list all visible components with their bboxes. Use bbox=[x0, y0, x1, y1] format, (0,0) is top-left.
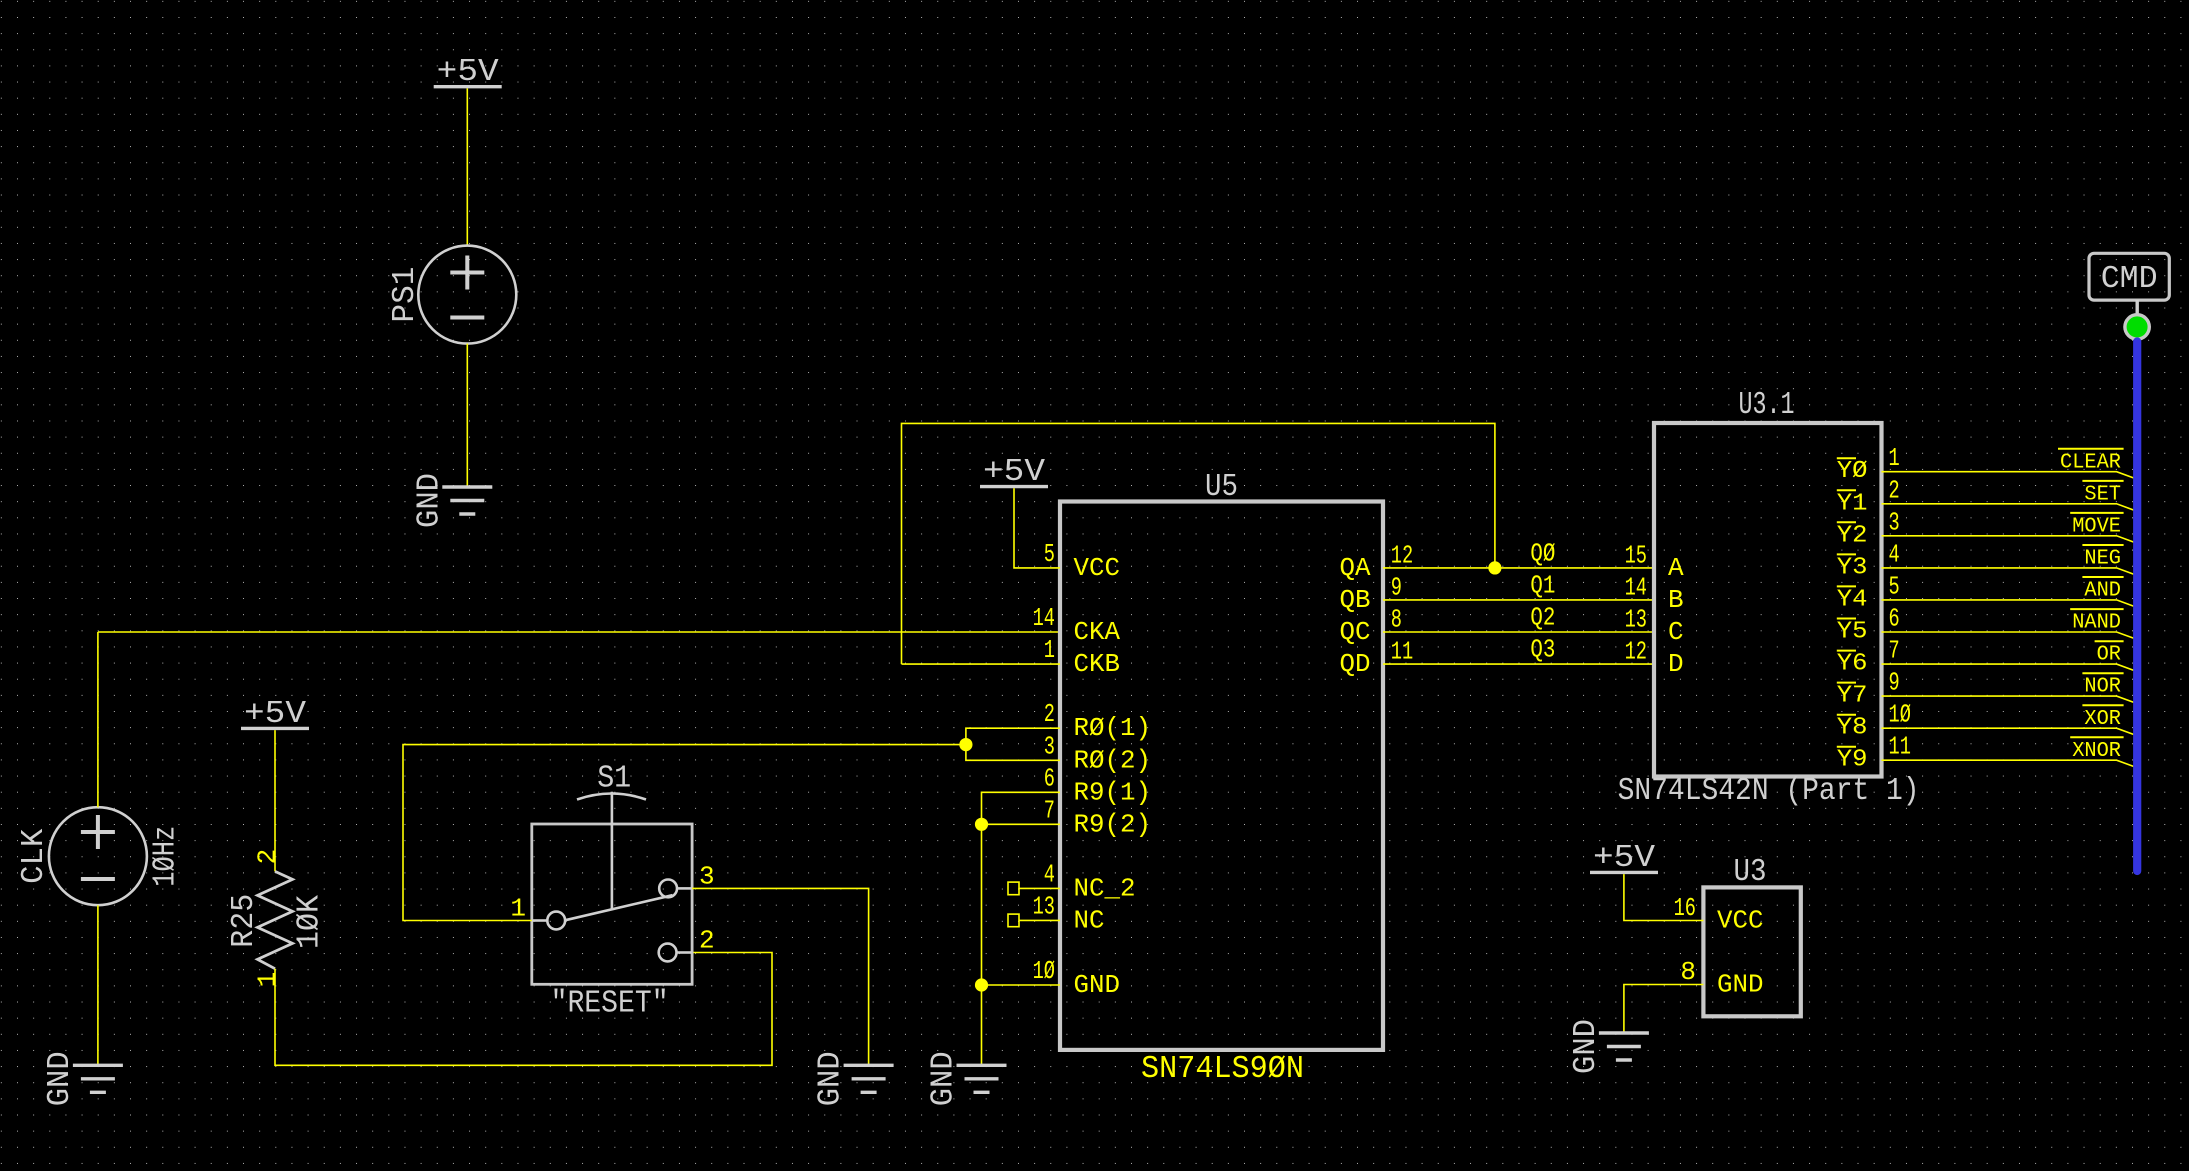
svg-text:CKB: CKB bbox=[1074, 649, 1121, 679]
svg-text:CLEAR: CLEAR bbox=[2060, 450, 2121, 474]
net label NEG bbox=[2082, 545, 2123, 571]
svg-text:GND: GND bbox=[814, 1051, 849, 1106]
bus CMD (blue) bbox=[2133, 342, 2141, 872]
svg-text:9: 9 bbox=[1889, 668, 1900, 698]
svg-text:QC: QC bbox=[1340, 617, 1371, 647]
no-connect pin 4 bbox=[1008, 882, 1060, 895]
resistor R25 10K bbox=[258, 871, 293, 968]
pin name Y0 (U3.1) bbox=[1837, 458, 1868, 485]
svg-text:NAND: NAND bbox=[2072, 611, 2121, 635]
svg-text:NEG: NEG bbox=[2084, 547, 2121, 571]
net label XNOR bbox=[2070, 737, 2123, 763]
svg-text:6: 6 bbox=[1889, 604, 1900, 634]
svg-text:3: 3 bbox=[1044, 731, 1055, 761]
svg-text:+5V: +5V bbox=[437, 55, 499, 90]
svg-text:+5V: +5V bbox=[1593, 841, 1655, 876]
wire Y0 to bus (net CLEAR) bbox=[1882, 472, 2134, 478]
wire R9(2) stub bbox=[982, 823, 1061, 825]
svg-text:VCC: VCC bbox=[1074, 553, 1121, 583]
power symbol +5V (R25 top) bbox=[241, 697, 309, 732]
svg-text:CKA: CKA bbox=[1074, 617, 1121, 647]
svg-text:8: 8 bbox=[1680, 957, 1696, 987]
svg-text:SN74LS42N (Part 1): SN74LS42N (Part 1) bbox=[1618, 774, 1920, 809]
svg-text:QB: QB bbox=[1340, 585, 1371, 615]
svg-text:16: 16 bbox=[1674, 893, 1696, 923]
wire Y8 to bus (net XOR) bbox=[1882, 728, 2134, 734]
wire +5V to U5 pin5 VCC bbox=[1014, 488, 1060, 568]
pin name Y4 (U3.1) bbox=[1837, 586, 1868, 613]
junction R9(2) bbox=[975, 818, 988, 831]
pin name Y5 (U3.1) bbox=[1837, 619, 1868, 646]
svg-text:AND: AND bbox=[2084, 579, 2121, 603]
wire Y6 to bus (net OR) bbox=[1882, 664, 2134, 670]
ground (U5) bbox=[927, 1051, 1007, 1106]
svg-text:3: 3 bbox=[699, 861, 715, 891]
svg-text:1: 1 bbox=[252, 972, 282, 988]
svg-text:1ØK: 1ØK bbox=[292, 895, 327, 949]
ground (CLK) bbox=[43, 1051, 123, 1106]
svg-text:R9(1): R9(1) bbox=[1074, 777, 1152, 807]
svg-text:12: 12 bbox=[1625, 637, 1647, 667]
svg-text:NOR: NOR bbox=[2084, 675, 2121, 699]
svg-text:7: 7 bbox=[1044, 795, 1055, 825]
wire QD to U3.1 D (net Q3) bbox=[1383, 663, 1654, 665]
IC U3.1 SN74LS42N body bbox=[1654, 423, 1882, 777]
svg-text:XNOR: XNOR bbox=[2072, 739, 2121, 763]
svg-text:13: 13 bbox=[1033, 891, 1055, 921]
svg-text:Y7: Y7 bbox=[1837, 683, 1868, 710]
wire Y7 to bus (net NOR) bbox=[1882, 696, 2134, 702]
svg-text:1ØHz: 1ØHz bbox=[149, 826, 184, 887]
svg-text:Y5: Y5 bbox=[1837, 619, 1868, 646]
svg-text:2: 2 bbox=[699, 926, 715, 956]
wire +5V to U3 pin16 VCC bbox=[1624, 874, 1704, 920]
svg-text:CMD: CMD bbox=[2101, 262, 2158, 297]
pin name Y7 (U3.1) bbox=[1837, 683, 1868, 710]
IC U3 body bbox=[1703, 887, 1800, 1016]
net label NAND bbox=[2070, 609, 2123, 635]
svg-text:QD: QD bbox=[1340, 649, 1371, 679]
svg-text:4: 4 bbox=[1889, 539, 1900, 569]
pin name Y6 (U3.1) bbox=[1837, 651, 1868, 678]
wire +5V to PS1 plus terminal bbox=[466, 88, 468, 246]
svg-text:Y2: Y2 bbox=[1837, 522, 1868, 549]
junction QA-feedback bbox=[1488, 561, 1501, 574]
pin name Y1 (U3.1) bbox=[1837, 490, 1868, 517]
net label SET bbox=[2082, 481, 2123, 507]
svg-text:GND: GND bbox=[927, 1051, 962, 1106]
svg-text:U3: U3 bbox=[1734, 855, 1767, 890]
svg-text:11: 11 bbox=[1391, 637, 1413, 667]
power symbol +5V (PS1 top) bbox=[434, 55, 502, 90]
svg-text:3: 3 bbox=[1889, 507, 1900, 537]
svg-text:NC: NC bbox=[1074, 905, 1105, 935]
svg-text:2: 2 bbox=[1889, 475, 1900, 505]
junction R0 net bbox=[959, 738, 972, 751]
svg-text:S1: S1 bbox=[597, 761, 631, 796]
svg-text:QØ: QØ bbox=[1530, 538, 1555, 568]
svg-text:6: 6 bbox=[1044, 763, 1055, 793]
svg-text:1Ø: 1Ø bbox=[1889, 700, 1911, 730]
svg-text:QA: QA bbox=[1340, 553, 1371, 583]
svg-text:PS1: PS1 bbox=[388, 267, 423, 323]
wire feedback QA to CKB bbox=[902, 423, 1495, 664]
svg-text:14: 14 bbox=[1625, 572, 1647, 602]
svg-text:+5V: +5V bbox=[983, 455, 1045, 490]
switch S1 body bbox=[532, 792, 692, 985]
wire Y2 to bus (net MOVE) bbox=[1882, 536, 2134, 542]
net label CLEAR bbox=[2058, 449, 2124, 475]
power symbol +5V (U3) bbox=[1590, 841, 1658, 876]
wire U5 GND stub bbox=[982, 984, 1061, 986]
wire U5 CKB stub bbox=[902, 663, 1061, 665]
svg-text:Y6: Y6 bbox=[1837, 651, 1868, 678]
svg-text:9: 9 bbox=[1391, 572, 1402, 602]
wire R0(1)/R0(2) stubs bbox=[966, 728, 1060, 760]
svg-text:Y8: Y8 bbox=[1837, 715, 1868, 742]
pin name Y2 (U3.1) bbox=[1837, 522, 1868, 549]
junction U5 GND bbox=[975, 978, 988, 991]
svg-text:Y3: Y3 bbox=[1837, 554, 1868, 581]
wire QA to U3.1 A (net Q0) bbox=[1383, 567, 1654, 569]
wire S1 pin1 to U5 R0 pins bbox=[403, 745, 966, 921]
svg-text:11: 11 bbox=[1889, 732, 1911, 762]
wire U3 pin8 GND to ground bbox=[1624, 985, 1704, 1034]
svg-text:Q3: Q3 bbox=[1530, 635, 1555, 665]
svg-text:SET: SET bbox=[2084, 482, 2121, 506]
svg-text:+5V: +5V bbox=[244, 697, 306, 732]
no-connect pin 13 bbox=[1008, 914, 1060, 927]
svg-text:VCC: VCC bbox=[1717, 906, 1764, 936]
svg-text:14: 14 bbox=[1033, 603, 1055, 633]
svg-text:8: 8 bbox=[1391, 605, 1402, 635]
wire Y1 to bus (net SET) bbox=[1882, 504, 2134, 510]
svg-text:13: 13 bbox=[1625, 605, 1647, 635]
wire QB to U3.1 B (net Q1) bbox=[1383, 599, 1654, 601]
svg-text:RØ(2): RØ(2) bbox=[1074, 745, 1152, 775]
svg-text:12: 12 bbox=[1391, 540, 1413, 570]
wire PS1 minus to ground bbox=[466, 344, 468, 487]
svg-text:7: 7 bbox=[1889, 636, 1900, 666]
svg-text:1: 1 bbox=[510, 894, 526, 924]
power symbol +5V (U5 VCC) bbox=[980, 455, 1048, 490]
clock source CLK 10Hz bbox=[49, 807, 147, 905]
svg-text:1Ø: 1Ø bbox=[1033, 956, 1055, 986]
svg-text:A: A bbox=[1668, 553, 1684, 583]
svg-text:GND: GND bbox=[412, 473, 447, 528]
svg-text:5: 5 bbox=[1044, 539, 1055, 569]
IC U5 SN74LS90N body bbox=[1060, 502, 1383, 1050]
voltage source PS1 bbox=[418, 246, 516, 344]
net label OR bbox=[2095, 641, 2124, 667]
svg-text:CLK: CLK bbox=[17, 829, 52, 884]
svg-text:Q2: Q2 bbox=[1530, 603, 1555, 633]
wire Y3 to bus (net NEG) bbox=[1882, 568, 2134, 574]
stub CMD to node bbox=[2135, 300, 2138, 315]
svg-text:Y9: Y9 bbox=[1837, 747, 1868, 774]
svg-text:Y4: Y4 bbox=[1837, 586, 1868, 613]
wire R25 pin1 to S1 pin2 bbox=[275, 953, 772, 1066]
svg-text:GND: GND bbox=[1074, 970, 1121, 1000]
svg-text:2: 2 bbox=[252, 849, 282, 865]
net label NOR bbox=[2082, 673, 2123, 699]
svg-text:Y1: Y1 bbox=[1837, 490, 1868, 517]
wire CLK top vertical bbox=[97, 632, 99, 807]
pin name Y3 (U3.1) bbox=[1837, 554, 1868, 581]
node CMD (green) bbox=[2125, 315, 2149, 339]
wire R9(1)/R9(2)/GND to ground bbox=[982, 792, 1061, 1065]
net label AND bbox=[2082, 577, 2123, 603]
svg-text:MOVE: MOVE bbox=[2072, 514, 2121, 538]
svg-text:NC_2: NC_2 bbox=[1074, 873, 1136, 903]
svg-text:SN74LS9ØN: SN74LS9ØN bbox=[1141, 1052, 1304, 1087]
svg-text:C: C bbox=[1668, 617, 1684, 647]
net label XOR bbox=[2082, 705, 2123, 731]
svg-text:GND: GND bbox=[1569, 1019, 1604, 1074]
svg-text:U3.1: U3.1 bbox=[1739, 388, 1795, 423]
svg-text:R25: R25 bbox=[227, 894, 262, 948]
svg-text:1: 1 bbox=[1889, 443, 1900, 473]
wire Y4 to bus (net AND) bbox=[1882, 600, 2134, 606]
svg-text:YØ: YØ bbox=[1837, 458, 1868, 485]
svg-text:"RESET": "RESET" bbox=[551, 987, 669, 1022]
wire QC to U3.1 C (net Q2) bbox=[1383, 631, 1654, 633]
net label MOVE bbox=[2070, 513, 2123, 539]
ground (PS1) bbox=[412, 473, 492, 528]
wire S1 pin3 to ground bbox=[692, 888, 869, 1065]
wire Y5 to bus (net NAND) bbox=[1882, 632, 2134, 638]
wire CLK bottom to ground bbox=[97, 905, 99, 1065]
svg-text:GND: GND bbox=[1717, 970, 1764, 1000]
ground (S1 pin3) bbox=[814, 1051, 894, 1106]
svg-text:OR: OR bbox=[2097, 643, 2121, 667]
svg-text:D: D bbox=[1668, 649, 1684, 679]
svg-text:Q1: Q1 bbox=[1530, 570, 1555, 600]
ground (U3) bbox=[1569, 1019, 1649, 1074]
svg-text:1: 1 bbox=[1044, 635, 1055, 665]
svg-text:5: 5 bbox=[1889, 571, 1900, 601]
svg-text:RØ(1): RØ(1) bbox=[1074, 713, 1152, 743]
wire CLK to U5 CKA (net CLK) bbox=[98, 631, 1060, 633]
wire +5V to R25 pin 2 bbox=[274, 730, 276, 871]
bus connector CMD box bbox=[2089, 253, 2169, 300]
svg-text:4: 4 bbox=[1044, 859, 1055, 889]
wire Y9 to bus (net XNOR) bbox=[1882, 760, 2134, 766]
svg-text:GND: GND bbox=[43, 1051, 78, 1106]
svg-text:XOR: XOR bbox=[2084, 707, 2121, 731]
svg-text:U5: U5 bbox=[1205, 470, 1238, 505]
svg-text:B: B bbox=[1668, 585, 1684, 615]
pin name Y9 (U3.1) bbox=[1837, 747, 1868, 774]
svg-text:R9(2): R9(2) bbox=[1074, 809, 1152, 839]
svg-text:2: 2 bbox=[1044, 699, 1055, 729]
svg-text:15: 15 bbox=[1625, 540, 1647, 570]
pin name Y8 (U3.1) bbox=[1837, 715, 1868, 742]
